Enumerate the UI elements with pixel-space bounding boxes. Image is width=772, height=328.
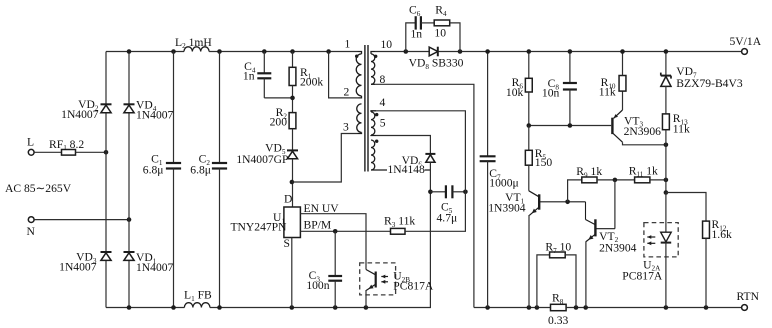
optocoupler U2A LED xyxy=(661,232,672,242)
svg-text:R9​ 1k: R9​ 1k xyxy=(576,165,602,179)
svg-text:BZX79-B4V3: BZX79-B4V3 xyxy=(676,77,743,90)
junction ground / R7 right xyxy=(574,305,579,310)
junction top bus / C7 xyxy=(485,49,490,54)
wire VD7 to R13 xyxy=(665,86,667,114)
svg-text:S: S xyxy=(284,237,290,250)
svg-text:BP/M: BP/M xyxy=(304,219,332,232)
wire fuse to bridge xyxy=(76,151,107,153)
svg-text:5: 5 xyxy=(380,117,386,130)
transformer bias winding lower section xyxy=(371,140,375,170)
wire R1 to R2 xyxy=(292,86,294,113)
wire VT3 base line xyxy=(529,125,611,127)
U2B light arrow 1 line xyxy=(381,276,388,278)
wire C3 bottom xyxy=(334,281,336,308)
svg-text:TNY247PN: TNY247PN xyxy=(230,221,287,234)
junction bottom bus / U2B emitter xyxy=(364,305,369,310)
svg-text:2N3904: 2N3904 xyxy=(599,242,637,255)
svg-text:1: 1 xyxy=(345,38,351,51)
U2A light arrow 2 line xyxy=(647,242,655,244)
wire C4 bottom xyxy=(263,78,265,98)
wire pin 2 to top bus xyxy=(329,52,359,98)
U2B light arrow 1 xyxy=(381,275,385,279)
wire output bus xyxy=(439,51,745,53)
VT2 emitter arrow head xyxy=(588,235,593,240)
wire U2A cathode to ground xyxy=(665,243,667,308)
svg-text:R7​ 10: R7​ 10 xyxy=(545,241,571,255)
U2A light arrow 1 line xyxy=(647,236,655,238)
optocoupler U2B phototransistor xyxy=(366,270,376,288)
capacitor C7 1000u xyxy=(480,156,496,161)
svg-text:R3​ 11k: R3​ 11k xyxy=(384,215,415,229)
resistor R3 11k xyxy=(391,228,406,234)
junction top bus / C2 xyxy=(217,49,222,54)
wire R3 to bias rail xyxy=(405,192,465,232)
wire VT2 collector riser xyxy=(614,180,616,229)
junction VT3 collector / R13 xyxy=(664,143,669,148)
svg-text:6.8μ: 6.8μ xyxy=(190,163,211,176)
junction top bus / column B xyxy=(127,49,132,54)
svg-text:N: N xyxy=(27,225,36,238)
fuse RF1 8.2 xyxy=(62,150,76,156)
resistor R11 1k xyxy=(635,177,650,183)
transistor VT1 1N3904 xyxy=(529,191,586,210)
svg-text:1.6k: 1.6k xyxy=(712,228,732,241)
diode VD3 1N4007 xyxy=(101,252,112,260)
wire N to bridge xyxy=(34,219,129,221)
junction bottom bus / column B xyxy=(127,305,132,310)
wire C8 top xyxy=(569,52,571,84)
wire VT3 collector to zener column xyxy=(623,142,666,145)
capacitor C8 10n xyxy=(563,83,577,90)
svg-text:200: 200 xyxy=(270,116,288,129)
wire pin 8 to secondary ground xyxy=(375,84,474,307)
wire C7 bottom xyxy=(487,161,489,307)
wire secondary ground bus left xyxy=(474,307,551,309)
resistor R13 11k xyxy=(662,114,669,130)
svg-text:1000μ: 1000μ xyxy=(489,176,518,189)
wire R5 top xyxy=(528,126,530,151)
junction C5 right / pin 4 rail xyxy=(463,190,468,195)
wire VD7 top xyxy=(665,52,667,76)
wire BP/M line xyxy=(300,230,390,232)
VT2 emitter line xyxy=(586,234,595,241)
wire bottom bus left xyxy=(106,307,184,309)
svg-text:100n: 100n xyxy=(306,279,329,292)
wire drain node to pin 3 xyxy=(292,134,358,183)
svg-text:0.33: 0.33 xyxy=(548,314,568,327)
terminal L xyxy=(28,149,34,155)
U2B emitter line xyxy=(366,284,375,290)
junction bottom bus / C2 xyxy=(217,305,222,310)
junction top bus / C8 xyxy=(568,49,573,54)
junction C5 left / ground leg xyxy=(428,190,433,195)
wire R9 to R11 xyxy=(597,179,635,181)
svg-text:EN UV: EN UV xyxy=(304,202,340,215)
svg-text:2: 2 xyxy=(344,86,350,99)
wire R10 top xyxy=(622,52,624,76)
svg-text:RTN: RTN xyxy=(737,290,760,303)
U2A light arrow 1 xyxy=(647,235,651,239)
svg-text:10k: 10k xyxy=(506,86,524,99)
svg-text:R11​ 1k: R11​ 1k xyxy=(629,164,658,178)
resistor R10 11k xyxy=(619,76,626,92)
bias lower winding phase dot xyxy=(375,140,378,143)
wire C7 top xyxy=(487,52,489,157)
wire pin 10 to VD8 xyxy=(375,51,429,53)
svg-text:2N3906: 2N3906 xyxy=(624,125,662,138)
wire pin 4 entry xyxy=(371,111,376,112)
wire R6 top xyxy=(528,52,530,79)
wire R5 to VT1 collector xyxy=(528,165,530,191)
U2B light arrow 2 xyxy=(381,280,385,284)
wire R12 bottom xyxy=(705,238,707,307)
junction R11 / zener column xyxy=(664,178,669,183)
junction ground / C7 xyxy=(485,305,490,310)
junction top bus / R6 xyxy=(527,49,532,54)
wire C6 to R4 xyxy=(421,22,434,24)
wire pin 1 entry xyxy=(358,52,362,54)
junction ground / R7 left xyxy=(535,305,540,310)
wire R11 right leg xyxy=(650,179,666,181)
VT3 emitter arrow (PNP) xyxy=(614,110,623,118)
resistor R12 1.6k xyxy=(703,221,710,238)
junction top bus / C1 xyxy=(171,49,176,54)
junction R9/R11/VT2 collector xyxy=(613,178,618,183)
wire bridge column A xyxy=(105,52,107,308)
svg-text:10: 10 xyxy=(381,38,393,51)
resistor R4 10 xyxy=(434,20,450,26)
svg-text:1N4007: 1N4007 xyxy=(59,261,97,274)
svg-text:1n: 1n xyxy=(411,28,423,41)
junction snubber left xyxy=(404,49,409,54)
wire C1 top xyxy=(173,52,175,164)
wire VT1 emitter to ground xyxy=(528,215,530,308)
svg-text:3: 3 xyxy=(343,121,349,134)
wire R9 left leg xyxy=(568,180,582,202)
wire pin 5 exit xyxy=(371,134,376,137)
junction top bus / R1 xyxy=(290,49,295,54)
inductor L1 FB xyxy=(184,303,210,308)
diode VD1 1N4007 xyxy=(124,252,135,260)
junction C8 node xyxy=(568,123,573,128)
svg-text:VD8​ SB330: VD8​ SB330 xyxy=(409,57,464,71)
wire pin 8 exit xyxy=(371,83,375,85)
svg-text:4.7μ: 4.7μ xyxy=(437,212,458,225)
wire snubber right leg xyxy=(450,23,460,52)
junction snubber right xyxy=(458,49,463,54)
junction ground / VT1 emitter xyxy=(527,305,532,310)
wire VD5 to U1 drain xyxy=(292,159,294,207)
junction top bus / VD7 xyxy=(664,49,669,54)
resistor R6 10k xyxy=(525,78,532,92)
resistor R1 200k xyxy=(289,67,296,85)
bias winding phase dot xyxy=(375,113,378,116)
svg-text:1N3904: 1N3904 xyxy=(488,201,526,214)
IC U1 TNY247PN xyxy=(284,207,301,238)
wire C5 right plate to bias rail xyxy=(452,191,465,193)
junction R12 branch xyxy=(664,190,669,195)
junction bottom bus / C1 xyxy=(171,305,176,310)
wire R1 top xyxy=(292,52,294,68)
junction ground / R12 xyxy=(704,305,709,310)
wire EN UV to optocoupler collector xyxy=(300,214,366,270)
junction top bus / C4 xyxy=(262,49,267,54)
terminal 5V/1A output xyxy=(742,49,748,55)
svg-text:10n: 10n xyxy=(542,86,560,99)
zener diode VD7 BZX79-B4V3 xyxy=(661,73,671,87)
svg-text:10: 10 xyxy=(434,27,446,40)
transistor VT3 2N3906 xyxy=(612,118,622,143)
diode VD5 1N4007GP xyxy=(287,150,298,158)
diode VD4 1N4007 xyxy=(124,104,135,112)
wire C8 bottom xyxy=(569,90,571,126)
U2A light arrow 2 xyxy=(647,241,651,245)
junction top bus / pin2 riser xyxy=(326,49,331,54)
junction bottom bus / U1 S xyxy=(290,305,295,310)
capacitor C2 6.8u xyxy=(212,163,227,169)
wire bridge column B xyxy=(128,52,130,308)
svg-text:AC 85∼265V: AC 85∼265V xyxy=(5,182,72,195)
junction ground / U2A LED xyxy=(664,305,669,310)
resistor R9 1k xyxy=(582,177,597,183)
transformer core xyxy=(365,45,368,172)
svg-text:11k: 11k xyxy=(673,123,690,136)
wire zener column to R11 node xyxy=(665,145,667,180)
svg-text:L: L xyxy=(27,136,34,149)
transformer primary winding lower (pins 2-3) xyxy=(357,104,362,132)
wire C4 to R1 bottom xyxy=(264,97,292,99)
svg-text:5V/1A: 5V/1A xyxy=(730,35,762,48)
junction BP/M / C3 xyxy=(333,229,338,234)
resistor R2 200 xyxy=(289,113,296,129)
svg-text:11k: 11k xyxy=(599,85,616,98)
wire R11 node to R12 branch xyxy=(665,180,667,193)
wire pin 10 entry xyxy=(371,52,375,54)
wire C2 top xyxy=(219,52,221,164)
transistor VT2 2N3904 xyxy=(586,202,615,237)
wire R12 top leg xyxy=(666,193,706,222)
diode VD2 1N4007 xyxy=(101,104,112,112)
svg-text:RF1​ 8.2: RF1​ 8.2 xyxy=(49,138,84,152)
svg-text:1N4007GP: 1N4007GP xyxy=(236,153,288,166)
transformer primary winding upper (pins 1-2) xyxy=(356,54,361,96)
junction top bus / R10 xyxy=(620,49,625,54)
wire U2B emitter to ground xyxy=(365,290,367,308)
svg-text:L1​ FB: L1​ FB xyxy=(184,289,212,303)
optocoupler U2A PC817A dashed box xyxy=(644,223,678,257)
wire VD6 to C5 xyxy=(429,163,431,192)
inductor L2 1mH xyxy=(184,47,209,52)
wire R7 left leg xyxy=(537,255,550,308)
capacitor C4 1n xyxy=(257,73,271,78)
wire VT3 emitter to R10 xyxy=(622,91,624,110)
wire R7 right leg xyxy=(565,255,576,308)
svg-text:PC817A: PC817A xyxy=(393,280,434,293)
diode VD8 SB330 xyxy=(429,47,438,57)
junction drain node xyxy=(290,180,295,185)
secondary phase dot xyxy=(374,55,377,58)
wire L to fuse xyxy=(34,151,61,153)
svg-text:1n: 1n xyxy=(243,70,255,83)
wire R13 to VT3 collector node xyxy=(665,130,667,145)
junction R6/R5 node xyxy=(527,123,532,128)
transformer secondary winding (pins 10-8) xyxy=(371,54,375,84)
wire pin 4 to bias rail xyxy=(376,111,465,192)
wire top bus to transformer pin 1 xyxy=(209,51,357,53)
wire U1 source to ground xyxy=(291,238,293,308)
capacitor C3 100n xyxy=(328,276,342,281)
capacitor C5 4.7u xyxy=(446,185,453,198)
wire top bus left xyxy=(106,51,184,53)
wire C1 bottom xyxy=(173,169,175,308)
svg-text:150: 150 xyxy=(535,156,553,169)
resistor R7 10 xyxy=(550,252,566,258)
wire C4 top xyxy=(263,52,265,74)
junction bottom bus / C3 xyxy=(333,305,338,310)
junction VT1 base / R9 xyxy=(565,200,570,205)
svg-text:1N4007: 1N4007 xyxy=(61,108,99,121)
terminal RTN xyxy=(742,305,748,311)
junction N / bridge column B xyxy=(127,217,132,222)
wire to U2A LED xyxy=(665,193,667,232)
svg-text:PC817A: PC817A xyxy=(622,269,663,282)
primary phase dot xyxy=(355,55,358,58)
U2B light arrow 2 line xyxy=(381,281,388,283)
svg-text:200k: 200k xyxy=(300,76,323,89)
svg-text:4: 4 xyxy=(380,96,386,109)
wire bottom bus to VD6/C5 node xyxy=(210,192,431,308)
wire bias winding bottom to VD6 anode xyxy=(371,169,430,171)
svg-text:1N4007: 1N4007 xyxy=(136,109,174,122)
wire R2 to VD5 xyxy=(292,129,294,151)
svg-text:L2​ 1mH: L2​ 1mH xyxy=(175,36,212,50)
junction L / bridge column A xyxy=(104,150,109,155)
junction ground / VT2 emitter xyxy=(583,305,588,310)
VT1 emitter arrow head xyxy=(532,209,537,214)
wire C2 bottom xyxy=(219,169,221,308)
svg-text:1N4148: 1N4148 xyxy=(388,163,426,176)
wire to C5 left plate xyxy=(430,191,446,193)
svg-text:1N4007: 1N4007 xyxy=(136,261,174,274)
optocoupler U2B PC817A dashed box xyxy=(360,263,396,295)
wire secondary ground bus right xyxy=(566,307,741,309)
diode VD6 1N4148 xyxy=(425,154,435,162)
wire pin 5 to VD6 xyxy=(376,136,430,154)
resistor R5 150 xyxy=(525,150,532,165)
wire pin 2 exit xyxy=(359,96,362,98)
VT1 emitter line xyxy=(529,207,539,215)
terminal N xyxy=(28,217,34,223)
svg-text:D: D xyxy=(284,193,292,206)
wire C3 top xyxy=(334,231,336,276)
U2B emitter arrow head xyxy=(369,285,374,289)
capacitor C1 6.8u xyxy=(166,163,181,169)
resistor R8 0.33 xyxy=(551,304,567,310)
capacitor C6 1n xyxy=(416,16,421,29)
wire snubber left leg xyxy=(406,23,415,52)
svg-text:6.8μ: 6.8μ xyxy=(143,163,164,176)
junction clamp node xyxy=(290,96,295,101)
wire VT2 emitter to ground xyxy=(585,241,587,307)
wire pin 3 exit xyxy=(358,132,362,133)
transformer bias winding (pins 4-5) xyxy=(371,112,375,135)
wire R6 bottom xyxy=(528,92,530,126)
